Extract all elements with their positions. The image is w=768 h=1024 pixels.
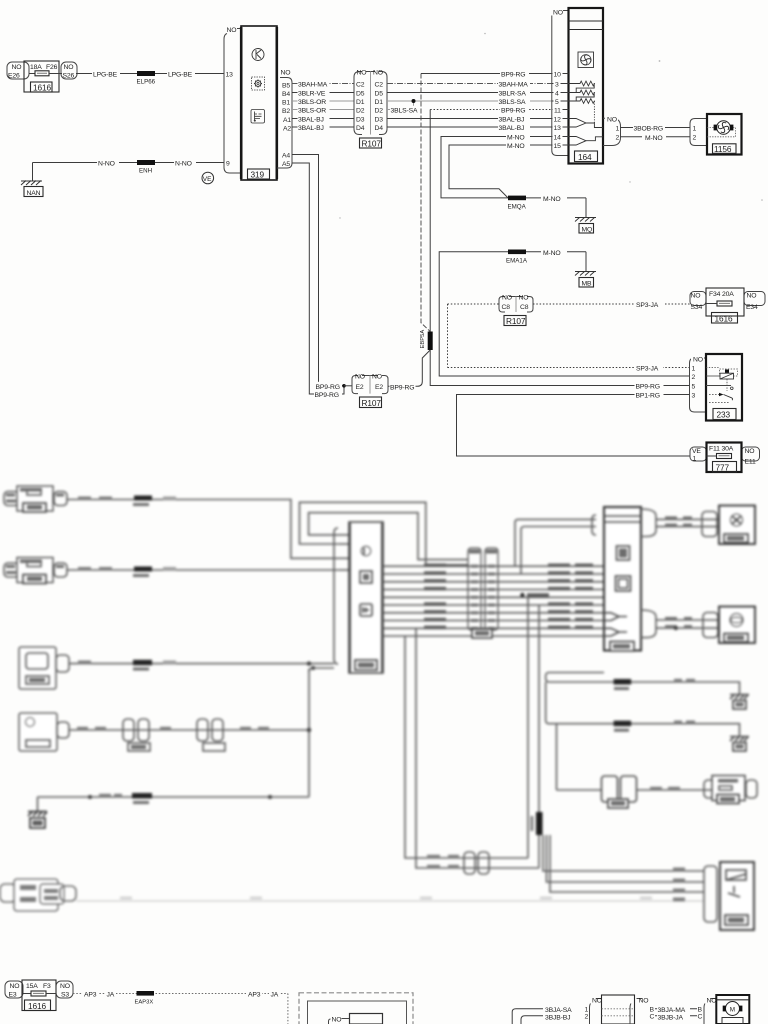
svg-text:SP3-JA: SP3-JA bbox=[636, 366, 659, 373]
faint row6 connector and wire bbox=[0, 879, 704, 911]
junction (blurred bundle) bbox=[520, 593, 524, 597]
svg-text:A5: A5 bbox=[282, 161, 290, 168]
svg-text:E11: E11 bbox=[745, 459, 757, 466]
svg-text:BP9-RG: BP9-RG bbox=[315, 392, 339, 399]
fuse box 1616 (bottom, F3 15A) bbox=[5, 980, 73, 1011]
wire row1 to central unit bbox=[67, 500, 339, 559]
svg-text:3: 3 bbox=[692, 392, 696, 399]
wire C2-pin3 3BAH-MA bbox=[387, 83, 552, 85]
svg-text:1: 1 bbox=[616, 125, 620, 132]
label 3BLR-VE bbox=[298, 89, 330, 97]
svg-text:9: 9 bbox=[226, 161, 230, 168]
svg-text:M-NO: M-NO bbox=[507, 135, 525, 142]
svg-text:S26: S26 bbox=[63, 73, 75, 80]
svg-text:D5: D5 bbox=[356, 90, 365, 97]
svg-text:LPG-BE: LPG-BE bbox=[168, 71, 193, 78]
svg-text:1: 1 bbox=[585, 1007, 589, 1014]
svg-text:N-NO: N-NO bbox=[98, 160, 115, 167]
ground riser (blurred) bbox=[308, 669, 310, 798]
sensor (blurred row4) bbox=[19, 713, 57, 751]
svg-text:JA: JA bbox=[271, 992, 279, 999]
svg-text:NO: NO bbox=[592, 997, 602, 1004]
svg-text:VE: VE bbox=[692, 448, 701, 455]
svg-text:C2: C2 bbox=[375, 81, 384, 88]
wire BP9-RG pin11 dotted bbox=[430, 109, 552, 111]
svg-text:3BJB-BJ: 3BJB-BJ bbox=[545, 1015, 570, 1022]
inline connector pair 2 (blurred) bbox=[197, 719, 208, 741]
wire BP9-RG from A5 bbox=[292, 163, 344, 394]
fan motor box bottom (blurred) bbox=[719, 607, 755, 644]
SECTION C: sharp bottom strip bbox=[5, 980, 749, 1024]
bundle rows and vertical connector (blurred) bbox=[383, 548, 604, 638]
svg-text:E3: E3 bbox=[9, 992, 17, 999]
svg-text:15: 15 bbox=[554, 143, 562, 150]
svg-text:LPG-BE: LPG-BE bbox=[93, 71, 118, 78]
fan icon in 164 bbox=[578, 52, 594, 68]
svg-text:1616: 1616 bbox=[33, 82, 52, 92]
connector R107 C8 row and fuse F34 1616 bbox=[448, 288, 766, 373]
svg-text:EMQA: EMQA bbox=[508, 204, 527, 211]
sensor (blurred row3) bbox=[19, 647, 56, 689]
splice EMA1A bbox=[508, 250, 526, 255]
connector R107 (top, C2/D5/D1-D4) bbox=[354, 70, 387, 149]
fan branch top (blurred) bbox=[641, 509, 656, 537]
right bracket of 319 bbox=[277, 78, 292, 169]
wire BP9-RG pin10 bbox=[421, 73, 552, 75]
bottom-right fan branch (blurred) bbox=[641, 607, 755, 644]
inline connector pair 1 (blurred) bbox=[123, 719, 134, 741]
svg-text:233: 233 bbox=[717, 410, 731, 420]
svg-text:M-NO: M-NO bbox=[645, 135, 663, 142]
164 output bracket NO 1,2 bbox=[603, 118, 621, 145]
svg-text:2: 2 bbox=[616, 135, 620, 142]
wire B4-D5 3BLR-VE bbox=[292, 92, 354, 94]
wire D4-pin13 3BAL-BJ bbox=[387, 126, 552, 128]
svg-text:F26: F26 bbox=[46, 64, 58, 71]
svg-text:VE: VE bbox=[203, 176, 212, 183]
loop wires to bundle bbox=[300, 502, 469, 565]
large dashed enclosure box bbox=[299, 993, 413, 1024]
fuse box (blurred row2) bbox=[4, 563, 19, 577]
svg-text:3BOB-RG: 3BOB-RG bbox=[634, 126, 664, 133]
inline connector pair (blurred bottom) bbox=[464, 852, 475, 874]
svg-text:BP9-RG: BP9-RG bbox=[636, 384, 660, 391]
riser BP9-RG dashed (pin10) bbox=[421, 74, 430, 332]
svg-text:NO: NO bbox=[227, 27, 237, 34]
label 3BAL-BJ bbox=[298, 123, 330, 131]
lower ground branch (blurred) bbox=[546, 682, 749, 751]
svg-text:B5: B5 bbox=[282, 82, 290, 89]
svg-text:14: 14 bbox=[554, 134, 562, 141]
SECTION A: sharp top diagram bbox=[7, 8, 765, 473]
svg-text:E2: E2 bbox=[375, 384, 383, 391]
fuse box (blurred bottom row) bbox=[712, 776, 745, 801]
relay box (blurred bottom right) bbox=[720, 862, 754, 930]
dashed enclosure box bbox=[299, 993, 413, 1024]
svg-text:EBP5A: EBP5A bbox=[420, 330, 426, 349]
wires 319 to R107 with labels bbox=[292, 80, 354, 133]
wire BP1-RG 233 pin3 to fuse 777 bbox=[457, 395, 691, 457]
wire riser-left to splice (blurred) bbox=[405, 636, 528, 858]
svg-text:3BLS-OR: 3BLS-OR bbox=[298, 99, 326, 106]
splice EBP5A bbox=[428, 332, 433, 351]
svg-text:R107: R107 bbox=[362, 398, 382, 408]
svg-text:JA: JA bbox=[107, 992, 115, 999]
wire SP3-JA dotted to C8 bbox=[448, 303, 500, 305]
svg-text:NO: NO bbox=[64, 64, 74, 71]
splice upper ground (blurred) bbox=[614, 679, 632, 685]
fan branch bottom (blurred) bbox=[641, 610, 656, 638]
ground MB bbox=[585, 252, 587, 272]
ECU 164 (fan control module) bbox=[550, 8, 621, 164]
svg-text:D3: D3 bbox=[375, 116, 384, 123]
harness bundle rows (blurred) bbox=[383, 565, 604, 567]
svg-text:A4: A4 bbox=[282, 152, 290, 159]
wires 164 to 1156 bbox=[621, 124, 691, 143]
wire A1-D3 3BAL-BJ bbox=[292, 118, 354, 120]
svg-text:13: 13 bbox=[554, 125, 562, 132]
wire BP9-RG from A4 bbox=[292, 155, 344, 386]
svg-text:1616: 1616 bbox=[715, 313, 734, 323]
svg-text:15A: 15A bbox=[26, 983, 38, 990]
svg-text:3BAH-MA: 3BAH-MA bbox=[499, 82, 529, 89]
svg-text:2: 2 bbox=[693, 135, 697, 142]
wire B1-D1 3BLS-OR bbox=[292, 100, 354, 102]
svg-text:2: 2 bbox=[585, 1014, 589, 1021]
svg-text:MB: MB bbox=[582, 280, 593, 287]
svg-text:C: C bbox=[650, 1014, 655, 1021]
bottom right motor row bbox=[512, 995, 749, 1024]
wire A2-D4 3BAL-BJ bbox=[292, 126, 354, 128]
svg-text:F3: F3 bbox=[43, 983, 51, 990]
wire row1 with splice bbox=[67, 496, 339, 559]
fuse box row1 (blurred) bbox=[4, 486, 67, 512]
svg-text:R107: R107 bbox=[506, 316, 526, 326]
svg-text:BP9-RG: BP9-RG bbox=[316, 384, 340, 391]
riser pair to splice (blurred) bbox=[527, 597, 529, 858]
relay 233 bbox=[690, 354, 743, 421]
svg-text:3BLR-SA: 3BLR-SA bbox=[499, 91, 527, 98]
svg-text:NO: NO bbox=[747, 293, 757, 300]
fuse box 1616 (top left, F26 18A) bbox=[7, 61, 77, 92]
splice (blurred row2) bbox=[134, 567, 152, 572]
svg-text:3: 3 bbox=[555, 81, 559, 88]
wire 3BJB-BJ bbox=[521, 1016, 543, 1024]
svg-text:D4: D4 bbox=[356, 125, 365, 132]
wire feed to ECU top (blurred) bbox=[515, 519, 596, 566]
wire BP9-RG to R107 E2 bbox=[388, 350, 430, 386]
svg-text:NO: NO bbox=[372, 374, 382, 381]
connector pair (blurred bottom row) bbox=[602, 776, 618, 802]
svg-text:ENH: ENH bbox=[139, 168, 152, 175]
svg-text:S34: S34 bbox=[691, 304, 703, 311]
wire row2 with splice bbox=[67, 567, 339, 578]
wire row2 to central unit bbox=[67, 569, 339, 571]
big splice bar (blurred) bbox=[536, 812, 543, 835]
central ECU box (blurred) bbox=[309, 522, 383, 673]
fuse box (blurred row1) bbox=[4, 492, 19, 506]
label 3BLS-OR bbox=[298, 106, 330, 114]
splice EBP5A on BP9-RG risers bbox=[388, 330, 690, 391]
svg-text:1616: 1616 bbox=[28, 1001, 47, 1011]
bottom connector row (blurred) bbox=[557, 776, 758, 809]
svg-text:18A: 18A bbox=[30, 64, 42, 71]
svg-text:3BLS-OR: 3BLS-OR bbox=[298, 108, 326, 115]
svg-text:3BAH-MA: 3BAH-MA bbox=[298, 82, 328, 89]
svg-text:3BLS-SA: 3BLS-SA bbox=[499, 99, 527, 106]
svg-text:B: B bbox=[650, 1007, 655, 1014]
junction BP9-RG bbox=[342, 384, 346, 388]
svg-text:2: 2 bbox=[692, 374, 696, 381]
wire B5-C2 3BAH-MA bbox=[292, 83, 354, 85]
svg-text:ELP66: ELP66 bbox=[137, 79, 156, 86]
svg-text:10: 10 bbox=[554, 71, 562, 78]
riser SP3-JA dotted bbox=[447, 304, 449, 368]
svg-text:MQ: MQ bbox=[582, 226, 593, 233]
svg-text:NO: NO bbox=[12, 64, 22, 71]
svg-text:BP9-RG: BP9-RG bbox=[390, 385, 414, 392]
central risers with big splice (blurred) bbox=[528, 597, 704, 892]
svg-text:B: B bbox=[698, 1007, 703, 1014]
icon: small meter box bbox=[251, 110, 265, 124]
svg-text:C: C bbox=[698, 1014, 703, 1021]
svg-text:F34 20A: F34 20A bbox=[709, 291, 734, 298]
fuse 1616 F34 20A bbox=[690, 292, 706, 306]
wire SP3-JA to fuse S34 bbox=[533, 303, 690, 305]
wire D2 3BLS-SA to junction bbox=[387, 109, 414, 111]
svg-text:NO: NO bbox=[60, 983, 70, 990]
wire D5-pin4 3BLR-SA bbox=[387, 92, 552, 94]
svg-text:C2: C2 bbox=[356, 81, 365, 88]
fuse box row2 (blurred) bbox=[4, 558, 67, 584]
svg-text:D1: D1 bbox=[356, 99, 365, 106]
svg-text:D1: D1 bbox=[375, 99, 384, 106]
svg-text:B1: B1 bbox=[282, 100, 290, 107]
wire B2-D2 3BLS-OR bbox=[292, 109, 354, 111]
svg-text:NO: NO bbox=[357, 70, 367, 77]
svg-text:S3: S3 bbox=[61, 992, 69, 999]
svg-text:E2: E2 bbox=[356, 384, 364, 391]
central ECU box (blurred) bbox=[349, 522, 383, 673]
319 label bbox=[248, 169, 270, 179]
ground NAN and wire N-NO with splice ENH bbox=[21, 158, 224, 197]
svg-text:NO: NO bbox=[707, 997, 717, 1004]
svg-text:A2: A2 bbox=[283, 126, 291, 133]
svg-text:NO: NO bbox=[745, 448, 755, 455]
svg-text:3BAL-BJ: 3BAL-BJ bbox=[298, 117, 324, 124]
svg-text:D2: D2 bbox=[356, 107, 365, 114]
connector R107-like (blurred) bbox=[468, 548, 481, 630]
svg-text:E26: E26 bbox=[8, 73, 20, 80]
splice EAP3X bbox=[137, 991, 155, 996]
svg-text:12: 12 bbox=[554, 116, 562, 123]
ground wire row5 bbox=[38, 796, 310, 798]
svg-text:B4: B4 bbox=[282, 91, 290, 98]
svg-text:1: 1 bbox=[693, 125, 697, 132]
svg-text:NO: NO bbox=[607, 117, 617, 124]
svg-text:777: 777 bbox=[716, 463, 730, 473]
svg-text:M-NO: M-NO bbox=[543, 196, 561, 203]
svg-text:D2: D2 bbox=[375, 107, 384, 114]
icon: circled K bbox=[252, 49, 264, 61]
svg-text:M: M bbox=[730, 1006, 735, 1013]
svg-text:AP3: AP3 bbox=[84, 992, 97, 999]
fan control ECU box (blurred) bbox=[604, 507, 641, 651]
wire SP3-JA to 233 pin1 bbox=[448, 367, 690, 369]
wire AP3-JA dotted bbox=[73, 993, 288, 995]
wire AP3-JA with splice EAP3X bbox=[73, 990, 288, 1024]
wire BP9-RG to relay 233 pin5 bbox=[430, 350, 689, 386]
connector (blurred row6) bbox=[0, 884, 16, 902]
splice lower ground (blurred) bbox=[614, 721, 632, 727]
splice EMQA and ground MQ bbox=[508, 194, 597, 234]
svg-text:BP9-RG: BP9-RG bbox=[501, 72, 525, 79]
svg-text:D3: D3 bbox=[356, 116, 365, 123]
ECU 319 (engine control unit box) bbox=[224, 26, 292, 180]
wire D1-pin5 3BLS-SA bbox=[387, 100, 552, 102]
junction 3BLS-SA bbox=[413, 101, 415, 106]
svg-text:3BAL-BJ: 3BAL-BJ bbox=[298, 125, 324, 132]
svg-text:M-NO: M-NO bbox=[543, 250, 561, 257]
junction D1/D2 3BLS-SA bbox=[390, 106, 420, 114]
svg-text:NO: NO bbox=[691, 293, 701, 300]
svg-text:AP3: AP3 bbox=[248, 992, 261, 999]
svg-text:164: 164 bbox=[578, 152, 592, 162]
wire to connector row (blurred) bbox=[557, 789, 602, 791]
svg-text:1156: 1156 bbox=[714, 144, 732, 154]
svg-text:A1: A1 bbox=[283, 117, 291, 124]
svg-text:EMA1A: EMA1A bbox=[506, 258, 528, 265]
ground wire lower (blurred) bbox=[546, 682, 740, 736]
svg-text:C8: C8 bbox=[502, 304, 511, 311]
splice (blurred row1) bbox=[134, 496, 152, 501]
wire loop to harness bundle bbox=[300, 502, 469, 565]
svg-text:3BJB-JA: 3BJB-JA bbox=[658, 1015, 684, 1022]
svg-text:NO: NO bbox=[553, 10, 563, 17]
svg-text:13: 13 bbox=[226, 72, 234, 79]
svg-text:3BLR-VE: 3BLR-VE bbox=[298, 91, 326, 98]
resistors inside 164 bbox=[569, 81, 595, 92]
wires to relay bracket (blurred) bbox=[543, 835, 704, 871]
svg-text:R107: R107 bbox=[362, 139, 382, 149]
svg-text:NO: NO bbox=[373, 70, 383, 77]
connector box bottom row bbox=[602, 995, 635, 1024]
svg-text:319: 319 bbox=[251, 170, 265, 180]
svg-text:3BAL-BJ: 3BAL-BJ bbox=[499, 125, 525, 132]
pin stub rows bbox=[552, 73, 569, 75]
right ECU box (blurred) bbox=[515, 507, 641, 651]
wire M-NO from 233 pin2 up to splice EMA1A and ground MB bbox=[439, 248, 689, 376]
svg-text:D5: D5 bbox=[375, 90, 384, 97]
svg-text:N-NO: N-NO bbox=[175, 160, 192, 167]
wire M-NO pin14 to EMQA bbox=[441, 137, 552, 198]
wire LPG-BE with splice ELP66 bbox=[76, 69, 224, 86]
wire row3 bbox=[69, 663, 306, 665]
label 3BLS-OR bbox=[298, 97, 330, 105]
label 3BAH-MA bbox=[298, 80, 330, 88]
rows R107 to 164 with labels bbox=[387, 70, 552, 332]
svg-text:1: 1 bbox=[693, 456, 697, 463]
wire 3BJB-JA bbox=[655, 1015, 697, 1017]
circled VE label bbox=[202, 172, 214, 184]
ground MQ bbox=[585, 198, 587, 218]
bottom-right relay (blurred) bbox=[405, 628, 754, 930]
wire M-NO pin15 to EMQA bbox=[449, 145, 552, 198]
wire inner loop to harness bundle bbox=[309, 513, 468, 560]
svg-text:11: 11 bbox=[554, 107, 561, 114]
svg-text:NO: NO bbox=[519, 295, 529, 302]
SECTION B: blurred middle diagram bbox=[0, 486, 757, 930]
svg-text:M-NO: M-NO bbox=[507, 143, 525, 150]
fan motor 1156 bbox=[690, 114, 742, 155]
svg-text:NO: NO bbox=[693, 357, 703, 364]
svg-text:D4: D4 bbox=[375, 125, 384, 132]
wire M-NO pin2 to 1156 bbox=[621, 136, 691, 138]
sensor row3 (blurred) bbox=[19, 647, 334, 689]
ground riser and row5 (blurred) bbox=[28, 661, 311, 828]
fan motor box top (blurred) bbox=[719, 506, 755, 545]
splice EMQA bbox=[508, 196, 526, 201]
wire D3-pin12 3BAL-BJ bbox=[387, 118, 552, 120]
svg-text:NO: NO bbox=[639, 997, 649, 1004]
svg-text:NO: NO bbox=[332, 1017, 342, 1024]
svg-text:1: 1 bbox=[692, 366, 696, 373]
splice (blurred row3) bbox=[133, 660, 152, 666]
svg-text:5: 5 bbox=[555, 99, 559, 106]
svg-text:4: 4 bbox=[555, 90, 559, 97]
sensor row4 with inline connectors (blurred) bbox=[19, 713, 309, 751]
svg-text:F11 30A: F11 30A bbox=[709, 446, 734, 453]
wire 3BJA-MA bbox=[655, 1008, 697, 1010]
svg-text:SP3-JA: SP3-JA bbox=[636, 302, 659, 309]
riser BP9-RG (pin11) bbox=[429, 110, 431, 332]
svg-text:E34: E34 bbox=[746, 304, 758, 311]
fuse 777 F11 30A and wire BP1-RG bbox=[457, 391, 760, 473]
164 label bbox=[575, 151, 598, 162]
wire 3BOB-RG pin1 to 1156 bbox=[621, 127, 691, 129]
splice (blurred row5) bbox=[132, 793, 152, 799]
svg-text:NO: NO bbox=[355, 374, 365, 381]
svg-text:C8: C8 bbox=[520, 304, 529, 311]
svg-text:BP1-RG: BP1-RG bbox=[636, 393, 660, 400]
triangles inside 164 bbox=[569, 119, 587, 128]
svg-text:NO: NO bbox=[281, 70, 291, 77]
motor M box bbox=[716, 995, 749, 1024]
wire row4 bbox=[69, 729, 309, 731]
svg-text:NO: NO bbox=[10, 983, 20, 990]
icon: dotted square with fan symbol bbox=[252, 77, 265, 90]
label 3BAL-BJ bbox=[298, 115, 330, 123]
svg-text:3BLS-SA: 3BLS-SA bbox=[391, 108, 419, 115]
wire 3BJA-SA bbox=[512, 1009, 543, 1024]
upper ground branch (blurred) bbox=[546, 673, 749, 710]
svg-text:5: 5 bbox=[692, 383, 696, 390]
svg-text:3BAL-BJ: 3BAL-BJ bbox=[499, 117, 525, 124]
svg-text:B2: B2 bbox=[282, 108, 290, 115]
svg-text:BP9-RG: BP9-RG bbox=[501, 108, 525, 115]
svg-text:EAP3X: EAP3X bbox=[135, 1000, 154, 1006]
ground wire upper (blurred) bbox=[546, 673, 740, 695]
ground symbol (blurred left) bbox=[28, 811, 47, 813]
connector R107 E2 row with BP9-RG wires from 319 A4/A5 bbox=[292, 155, 416, 408]
dust specks bbox=[339, 33, 763, 219]
svg-text:NAN: NAN bbox=[27, 190, 41, 197]
top-right fan branch (blurred) bbox=[641, 506, 755, 545]
svg-text:NO: NO bbox=[502, 295, 512, 302]
